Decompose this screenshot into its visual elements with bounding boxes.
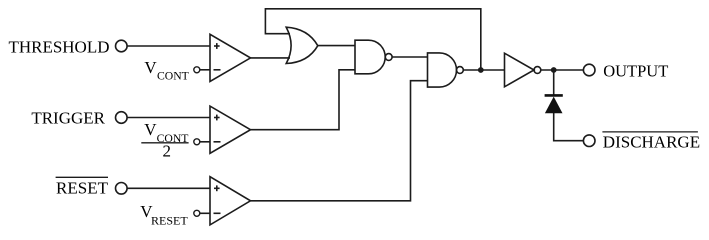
terminal DISCHARGE xyxy=(583,135,595,147)
label RESET (with overline) xyxy=(56,177,109,197)
svg-text:CONT: CONT xyxy=(157,70,189,83)
label Vreset xyxy=(140,202,188,228)
terminal Vcont xyxy=(194,67,200,73)
terminal RESET xyxy=(116,183,128,195)
wire NAND G2 output to NAND G3 upper input xyxy=(392,56,427,58)
wire feedback from NAND G3 output node to OR gate upper input xyxy=(265,9,480,70)
wire Vreset to comparator U3 - xyxy=(200,212,210,214)
wire output node down to diode cathode xyxy=(553,70,555,96)
svg-text:OUTPUT: OUTPUT xyxy=(603,62,668,81)
terminal THRESHOLD xyxy=(116,40,128,52)
junction node A (feedback tap) xyxy=(478,67,484,73)
NAND gate G3 xyxy=(428,53,464,87)
wire NAND G3 output to inverter xyxy=(463,69,504,71)
OR gate G1 xyxy=(286,27,318,63)
comparator U2 (trigger) xyxy=(210,106,251,153)
comparator U1 (threshold) xyxy=(210,34,251,81)
wire OR gate output to NAND G2 upper input xyxy=(317,45,355,47)
label Vcont/2 (fraction) xyxy=(141,120,188,161)
inverter G4 (output buffer) xyxy=(505,53,541,87)
wire comparator U3 output to NAND G3 lower input xyxy=(251,81,428,201)
terminal OUTPUT xyxy=(583,64,595,76)
svg-text:RESET: RESET xyxy=(151,214,188,228)
junction node B (output/discharge tap) xyxy=(551,67,557,73)
wire diode anode to DISCHARGE terminal xyxy=(554,113,584,141)
terminal TRIGGER xyxy=(116,112,128,124)
wire inverter output to OUTPUT terminal xyxy=(541,69,584,71)
label DISCHARGE (with overline) xyxy=(602,132,700,151)
wire Vcont to comparator U1 - xyxy=(200,69,210,71)
wire THRESHOLD to comparator U1 + xyxy=(127,45,210,47)
wire comparator U2 output to NAND G2 lower input xyxy=(251,70,356,130)
svg-text:V: V xyxy=(144,120,157,139)
wire comparator U1 output to OR gate xyxy=(251,57,291,59)
wire TRIGGER to comparator U2 + xyxy=(127,117,210,119)
svg-text:RESET: RESET xyxy=(56,179,109,198)
terminal Vcont/2 xyxy=(194,139,200,145)
NAND gate G2 xyxy=(355,40,392,74)
svg-text:DISCHARGE: DISCHARGE xyxy=(603,132,700,151)
terminal Vreset xyxy=(194,210,200,216)
wire RESET to comparator U3 + xyxy=(127,187,210,189)
label Vcont xyxy=(144,58,188,82)
svg-text:TRIGGER: TRIGGER xyxy=(31,109,105,128)
svg-text:V: V xyxy=(144,58,157,77)
svg-text:2: 2 xyxy=(163,141,172,160)
svg-text:THRESHOLD: THRESHOLD xyxy=(8,37,109,56)
comparator U3 (reset) xyxy=(210,177,251,225)
wire Vcont/2 to comparator U2 - xyxy=(200,141,210,143)
diode D1 xyxy=(545,95,563,113)
